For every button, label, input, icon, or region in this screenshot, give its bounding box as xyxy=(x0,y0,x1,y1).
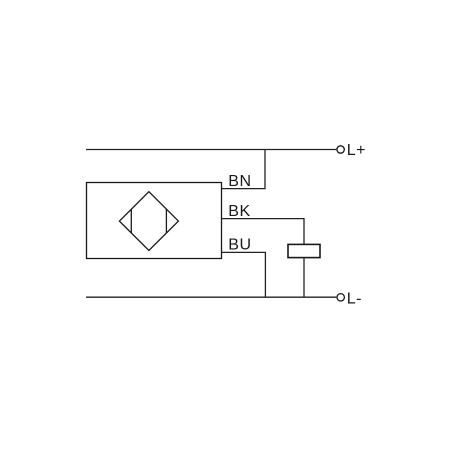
svg-text:BU: BU xyxy=(228,236,251,253)
sensor symbol diamond xyxy=(119,192,178,251)
wire BN xyxy=(222,150,265,189)
wire L+ rail xyxy=(86,149,336,151)
svg-text:BN: BN xyxy=(228,173,251,190)
terminal L- xyxy=(337,294,344,301)
load resistor xyxy=(288,244,320,257)
wire L- rail xyxy=(86,296,336,298)
sensor box xyxy=(87,183,222,259)
svg-text:L-: L- xyxy=(347,290,362,307)
svg-text:BK: BK xyxy=(228,203,251,220)
wire BU xyxy=(222,252,266,297)
wire load to L- rail xyxy=(303,258,305,298)
terminal L+ xyxy=(337,146,344,153)
wire BK xyxy=(222,219,304,245)
svg-text:L+: L+ xyxy=(347,142,366,159)
